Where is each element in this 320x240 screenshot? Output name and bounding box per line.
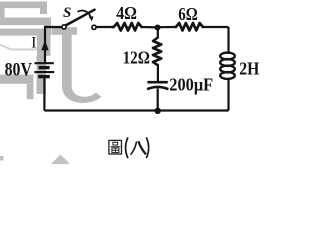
- inductor L1 2H: [220, 53, 235, 79]
- label 80V: [5, 60, 33, 81]
- svg-text:12Ω: 12Ω: [123, 47, 150, 67]
- label 4Ω: [116, 3, 137, 23]
- svg-text:80V: 80V: [5, 60, 33, 81]
- wire middle branch (node A to R2): [157, 28, 159, 39]
- svg-text:6Ω: 6Ω: [178, 4, 198, 24]
- watermark bar 1: [0, 2, 47, 15]
- watermark bottom-left speck: [0, 156, 4, 161]
- wire top (R3 to top right corner): [203, 27, 229, 54]
- watermark left rail: [0, 2, 5, 22]
- svg-text:I: I: [31, 34, 36, 51]
- label 2H: [239, 58, 259, 78]
- watermark bowl: [0, 45, 40, 50]
- resistor R2 12Ω: [153, 38, 161, 66]
- current arrow I head: [41, 40, 48, 50]
- caption close paren: [146, 137, 148, 158]
- wire bottom: [44, 109, 228, 111]
- watermark bar 3: [0, 20, 51, 36]
- wire top (R1 to node A): [142, 26, 158, 29]
- wire middle branch (C1 to node B): [157, 89, 159, 111]
- watermark bottom triangle: [51, 155, 70, 165]
- svg-text:4Ω: 4Ω: [116, 3, 137, 23]
- svg-text:2H: 2H: [239, 58, 259, 78]
- wire right vertical (inductor to bottom corner): [227, 78, 228, 111]
- resistor R3 6Ω: [176, 23, 203, 31]
- watermark leg and J hook of right glyph: [62, 35, 102, 103]
- resistor R1 4Ω: [113, 23, 142, 31]
- watermark bar below 80V: [0, 75, 34, 100]
- battery 80V: [34, 63, 54, 76]
- capacitor C1 200μF: [147, 82, 168, 89]
- svg-text:S: S: [63, 5, 71, 21]
- node B junction dot: [155, 108, 161, 114]
- node A junction dot: [155, 25, 161, 31]
- label 12Ω: [123, 47, 150, 67]
- caption open paren: [126, 137, 128, 158]
- switch S: [62, 10, 96, 30]
- label 6Ω: [178, 4, 198, 24]
- caption 圖 glyph: [109, 140, 122, 154]
- label S: [63, 5, 71, 21]
- wire middle branch (R2 to C1): [157, 65, 159, 81]
- caption 八 glyph: [131, 141, 146, 155]
- watermark vertical behind battery: [37, 32, 51, 94]
- wire left vertical (battery to bottom corner): [43, 78, 46, 111]
- watermark bar 2: [0, 18, 51, 26]
- label I: [31, 34, 36, 51]
- label 200μF: [169, 75, 213, 95]
- wire left vertical (battery to top corner): [45, 27, 62, 63]
- svg-text:200μF: 200μF: [169, 75, 213, 95]
- watermark top bar of right glyph: [52, 27, 78, 35]
- wire top (switch to R1): [96, 26, 113, 28]
- wire top (node A to R3): [158, 26, 177, 28]
